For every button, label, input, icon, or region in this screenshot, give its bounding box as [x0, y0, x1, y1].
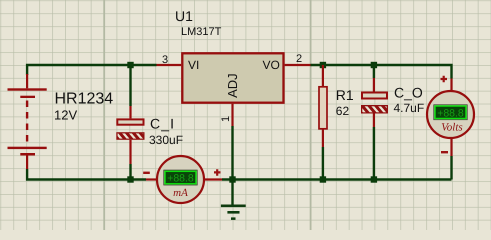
wire C_I bottom to rail [129, 164, 131, 180]
svg-text:62: 62 [336, 104, 350, 118]
svg-text:2: 2 [296, 53, 302, 65]
resistor R1 [319, 65, 327, 147]
svg-text:mA: mA [173, 187, 188, 199]
wire C_O bottom to rail [373, 127, 375, 180]
svg-text:12V: 12V [54, 108, 77, 123]
svg-text:330uF: 330uF [149, 133, 183, 147]
wire voltmeter bottom to rail [450, 156, 452, 180]
pin 3 wire (VI) [157, 64, 182, 66]
svg-text:1: 1 [220, 116, 232, 122]
ammeter (mA) [146, 156, 222, 203]
svg-text:LM317T: LM317T [181, 26, 222, 38]
svg-text:HR1234: HR1234 [55, 91, 114, 108]
svg-text:C_I: C_I [150, 116, 175, 132]
wire C_O top stub [373, 65, 375, 78]
svg-text:Volts: Volts [441, 121, 462, 133]
svg-text:R1: R1 [336, 87, 354, 103]
svg-text:3: 3 [162, 54, 168, 66]
label voltmeter minus [441, 151, 448, 153]
node junction at C_I top [127, 62, 133, 68]
wire R1 bottom to rail [322, 147, 324, 180]
capacitor C_O [361, 78, 388, 127]
wire battery bottom to ammeter [27, 169, 146, 180]
node junction at C_I bottom [127, 176, 133, 182]
node junction at C_O top [371, 62, 377, 68]
voltmeter (Volts) [427, 79, 474, 157]
node junction at R1 top [320, 62, 326, 68]
svg-text:4.7uF: 4.7uF [394, 101, 425, 115]
label ammeter plus [214, 169, 221, 176]
svg-text:U1: U1 [175, 8, 193, 24]
wire U1 ADJ pin to ground node [231, 126, 233, 180]
capacitor C_I [116, 106, 144, 164]
pin 2 wire (VO) [285, 64, 311, 66]
wire ammeter to ground node and bottom rail [222, 178, 452, 180]
ground [221, 180, 246, 220]
op-amp regulator U1 LM317T [182, 53, 283, 102]
label voltmeter plus [441, 76, 448, 83]
svg-text:VO: VO [263, 58, 280, 72]
node junction at R1 bottom [320, 176, 326, 182]
svg-text:VI: VI [188, 58, 199, 72]
node junction at C_O bottom [371, 176, 377, 182]
wire top rail from battery to U1 VI [27, 65, 156, 75]
label ammeter minus [143, 172, 150, 174]
wire top rail from U1 VO to voltmeter [311, 65, 452, 79]
svg-text:+88.8: +88.8 [167, 173, 194, 185]
pin 1 wire (ADJ) [231, 104, 233, 126]
node junction at ground [229, 176, 235, 182]
svg-text:ADJ: ADJ [225, 73, 240, 98]
svg-text:C_O: C_O [394, 85, 423, 101]
wire C_I branch down from node [129, 65, 131, 106]
battery HR1234 [8, 74, 47, 169]
svg-text:+88.8: +88.8 [437, 107, 464, 119]
